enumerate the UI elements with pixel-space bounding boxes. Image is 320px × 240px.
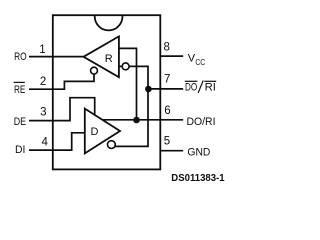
svg-text:DE: DE — [14, 116, 26, 128]
svg-text:1: 1 — [39, 44, 45, 56]
wire receiver noninverting input to pin 6 node — [119, 48, 137, 118]
svg-text:CC: CC — [195, 57, 205, 67]
pin 4 wire (DI to driver input) — [30, 133, 85, 150]
svg-text:GND: GND — [187, 146, 210, 158]
overline of RE — [14, 81, 25, 83]
pin 7 wire (inverted DO/RI) — [148, 88, 182, 90]
pin-1 orientation notch — [95, 16, 123, 30]
junction node pin 7 — [145, 86, 152, 93]
svg-text:RE: RE — [14, 84, 25, 96]
pin 2 wire (RE to receiver enable bubble) — [30, 73, 94, 90]
svg-text:RO: RO — [14, 51, 27, 63]
svg-text:7: 7 — [164, 74, 170, 86]
wire receiver inverting input to pin 7 node and driver inverted output — [111, 66, 148, 146]
pin 3 wire (DE to driver enable) — [30, 98, 95, 121]
svg-text:6: 6 — [164, 105, 170, 117]
svg-text:3: 3 — [40, 107, 46, 119]
IC package body U1 — [53, 15, 161, 169]
overline of DO — [185, 80, 198, 82]
svg-text:RI: RI — [205, 81, 216, 93]
op-amp D (driver U1B) — [85, 109, 120, 154]
svg-text:4: 4 — [41, 136, 48, 148]
svg-text:DI: DI — [15, 144, 25, 156]
svg-text:R: R — [105, 53, 113, 65]
svg-text:5: 5 — [164, 135, 170, 147]
svg-text:DO/RI: DO/RI — [187, 116, 216, 128]
junction node pin 6 — [133, 117, 140, 124]
svg-text:D: D — [91, 126, 99, 138]
pin 6 wire (DO/RI) — [102, 119, 183, 121]
pin 1 wire (RO) — [30, 56, 85, 58]
overline of RI — [204, 80, 216, 82]
pin 8 wire (VCC) — [160, 55, 182, 57]
svg-text:DS011383-1: DS011383-1 — [171, 173, 225, 184]
svg-text:DO: DO — [185, 81, 198, 93]
svg-text:8: 8 — [163, 42, 169, 54]
pin 5 wire (GND) — [160, 150, 182, 152]
slash separator pin 7 label — [198, 81, 203, 93]
op-amp R (receiver U1A) — [84, 36, 119, 77]
receiver enable bubble — [91, 67, 98, 74]
driver inverted output bubble — [108, 141, 116, 149]
svg-text:2: 2 — [40, 76, 46, 88]
receiver inverting input bubble — [122, 63, 129, 70]
